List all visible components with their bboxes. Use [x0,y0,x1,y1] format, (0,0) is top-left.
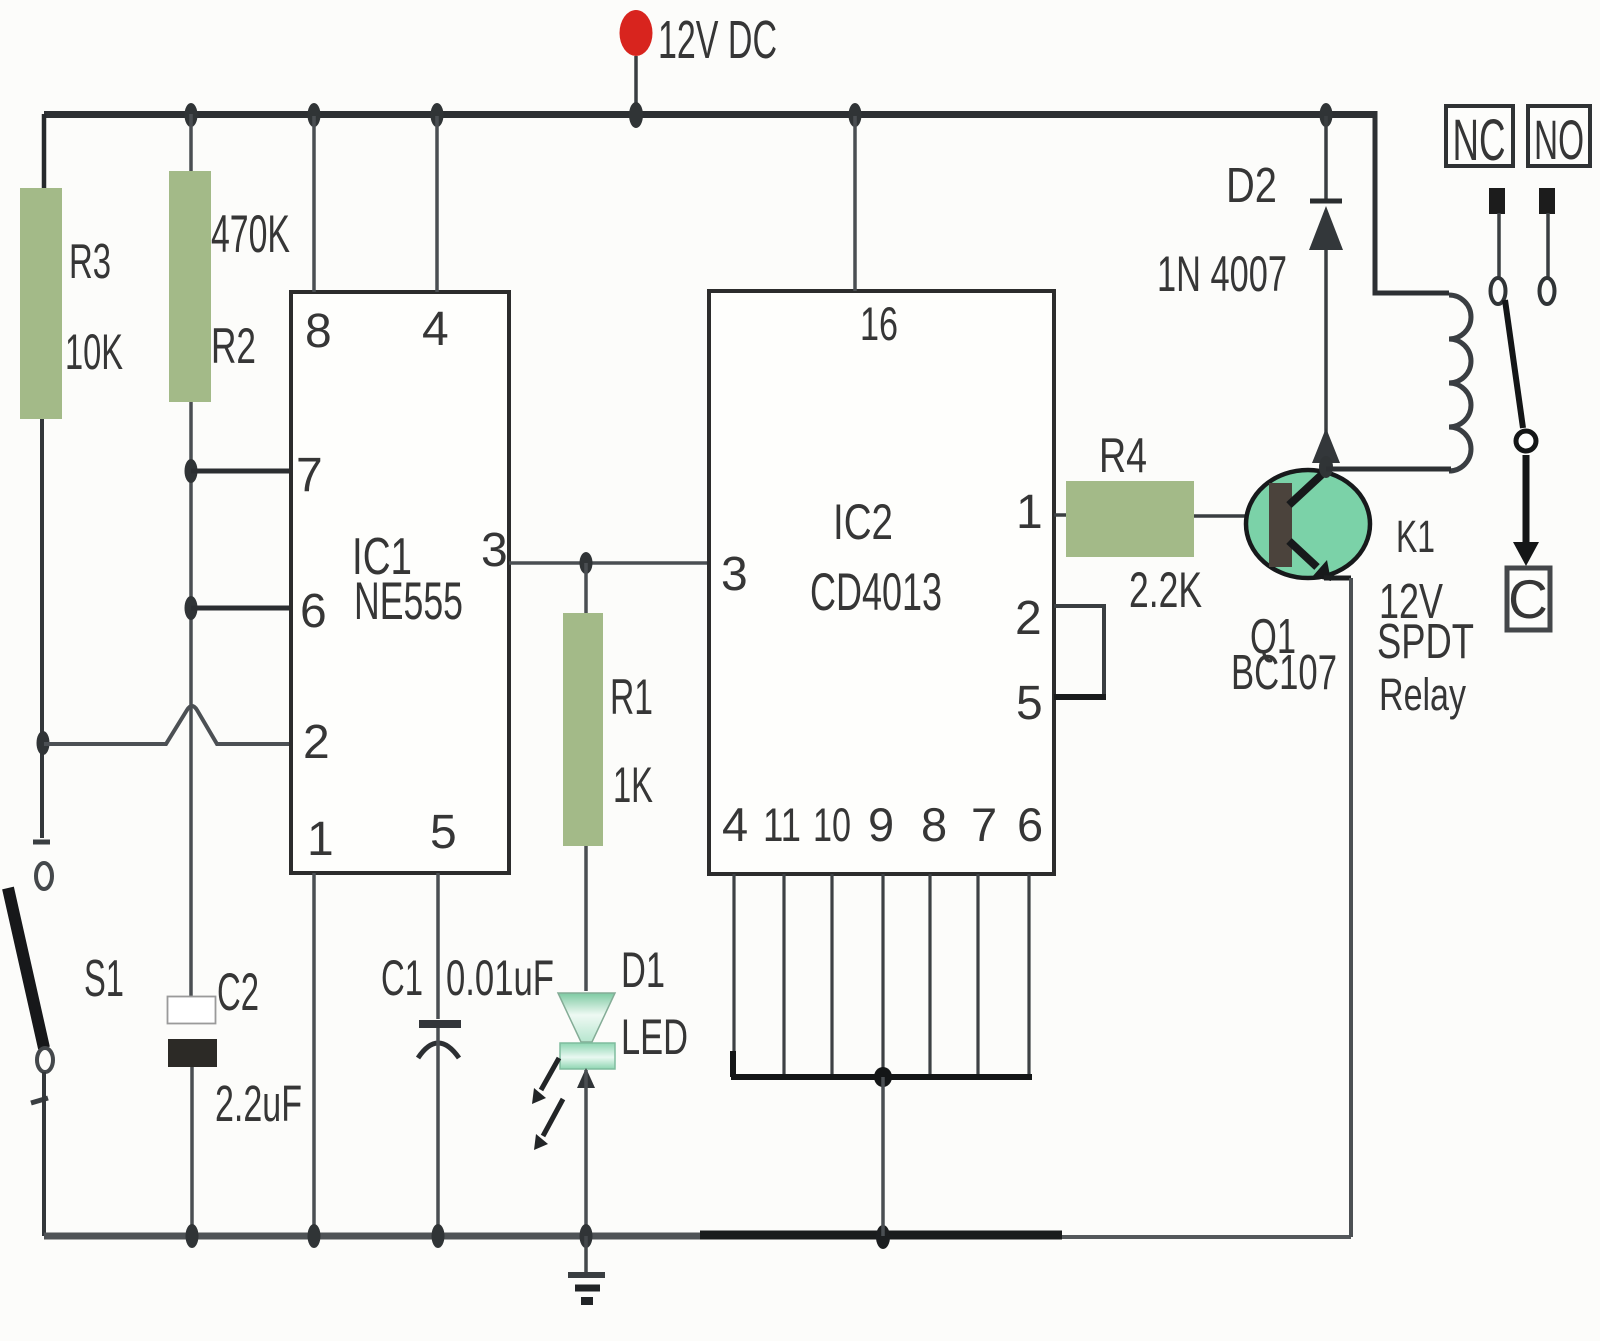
junction bus [874,1067,892,1087]
junction top rail at D2 [1320,103,1333,127]
svg-text:12V DC: 12V DC [658,10,777,70]
junction rail at C2 [186,1224,199,1248]
svg-text:1: 1 [307,813,334,866]
LED emission arrow 2 [534,1099,563,1150]
NC contact stem [1489,188,1506,304]
svg-text:16: 16 [860,297,898,350]
svg-text:1K: 1K [613,757,653,813]
wire pin 2 with hop over R2 [44,706,291,744]
svg-text:2.2uF: 2.2uF [215,1075,302,1132]
switch S1 [8,842,53,1236]
bottom ground rail black segment [700,1231,1062,1240]
junction rail at LED [580,1224,593,1248]
resistor R1 [563,613,603,846]
svg-text:D1: D1 [621,942,665,998]
svg-text:1: 1 [1016,486,1043,539]
resistor R2 [169,171,211,402]
wire left rail top lead [42,114,47,189]
wire IC1 pin 1 to ground rail [312,873,316,1236]
wire IC2 pin 1 to R4 [1054,513,1068,517]
diode D2 [1309,116,1343,466]
wire emitter down to rail [1349,578,1353,1237]
resistor R1 lead top [584,563,588,614]
svg-text:470K: 470K [211,205,290,264]
svg-text:IC2: IC2 [833,494,893,550]
svg-text:5: 5 [1016,677,1043,730]
wire pin 7 [191,469,291,474]
svg-text:10K: 10K [65,324,123,380]
resistor R3 [20,188,62,419]
wire R4 to Q1 base [1194,514,1272,518]
wire R3 bottom to switch [40,419,44,838]
svg-text:NC: NC [1453,108,1506,173]
svg-text:R4: R4 [1099,429,1147,483]
capacitor C2 [168,997,218,1237]
wire bus to ground rail [881,1077,885,1236]
svg-text:6: 6 [300,585,327,638]
NC terminal box [1446,106,1513,166]
svg-text:CD4013: CD4013 [810,563,942,622]
C terminal box [1507,568,1550,630]
svg-text:LED: LED [621,1009,688,1065]
svg-text:C1: C1 [381,950,423,1006]
svg-text:2: 2 [303,716,330,769]
svg-text:R2: R2 [211,318,256,374]
wire IC1 pin 4 [435,116,439,292]
relay coil K1 feed wires [1373,111,1378,291]
bottom ground rail left part [44,1233,1062,1240]
node pin2 row junction [37,731,50,755]
svg-text:0.01uF: 0.01uF [446,950,554,1006]
wire IC2 pin 7 down [976,874,979,1075]
junction rail at pin1 [308,1224,321,1248]
svg-text:8: 8 [921,798,947,851]
svg-text:4: 4 [722,798,748,851]
wire IC2 pin 10 down [830,874,833,1075]
junction collector node [1319,456,1333,478]
wire coil bottom to collector node [1326,467,1451,472]
ground [568,1236,605,1301]
NO terminal box [1528,106,1590,166]
svg-text:4: 4 [422,303,449,356]
wire IC2 pin 11 down [782,874,785,1075]
svg-text:Relay: Relay [1379,669,1466,720]
wire IC2 pin 4 down [732,874,735,1075]
IC2 CD4013 box [709,291,1054,874]
wire pin 3 IC1 to IC2 [509,561,709,565]
svg-text:C: C [1508,568,1548,630]
svg-text:R3: R3 [69,235,111,289]
op-amp IC1 NE555 box [291,292,509,873]
pole arrow [1513,455,1539,566]
wire IC1 pin 8 [312,116,316,292]
power node 12V DC [620,10,653,113]
top power rail wire [44,111,1377,118]
svg-text:K1: K1 [1396,511,1435,562]
wire IC2 pin 9 down [881,874,884,1075]
capacitor C1 [418,1024,461,1236]
resistor R2 top lead [189,114,193,172]
svg-text:NO: NO [1534,108,1584,171]
bottom ground rail thin right part [1062,1235,1351,1239]
resistor R4 [1066,481,1194,557]
relay coil K1 [1449,295,1471,471]
wire R2 bottom to C2 [189,402,193,997]
svg-text:7: 7 [296,449,323,502]
pole pivot ring [1516,431,1536,451]
transistor Q1 [1246,467,1370,581]
wire IC2 pin 16 [853,116,857,291]
junction R2 pin6 [185,596,198,620]
junction rail at C1 [432,1224,445,1248]
svg-text:10: 10 [813,798,851,851]
relay pole arm [1505,300,1523,428]
junction top rail at IC1 pin4 [431,103,444,127]
svg-text:SPDT: SPDT [1377,615,1474,669]
bus wire under IC2 [731,1051,1032,1077]
wire pin 6 [191,606,291,611]
svg-text:BC107: BC107 [1231,646,1337,700]
svg-text:5: 5 [430,806,457,859]
junction R2 pin7 [185,459,198,483]
svg-text:D2: D2 [1226,159,1277,213]
svg-text:7: 7 [971,798,997,851]
junction top rail at IC1 pin8 [308,103,321,127]
svg-text:8: 8 [305,305,332,358]
junction rail at IC2 bus [876,1225,890,1249]
wire R1 to LED [584,846,588,991]
wire IC1 pin 5 to C1 [436,873,440,1019]
svg-text:C2: C2 [217,963,259,1022]
LED D1 [558,993,615,1236]
svg-text:2: 2 [1015,592,1042,645]
junction top rail at 12V [629,102,643,128]
svg-text:S1: S1 [84,950,124,1008]
svg-text:2.2K: 2.2K [1129,562,1202,618]
svg-text:NE555: NE555 [354,572,463,631]
wire IC2 pin 8 down [928,874,931,1075]
svg-text:R1: R1 [610,669,653,725]
LED emission arrow 1 [532,1058,559,1104]
junction top rail at IC2 pin16 [849,103,862,127]
wire IC2 pin 6 down [1027,874,1030,1075]
svg-text:11: 11 [763,798,801,851]
svg-text:9: 9 [868,798,894,851]
junction top rail at R2 [185,103,198,127]
junction pin3 R1 [580,552,593,574]
svg-text:1N 4007: 1N 4007 [1157,246,1287,302]
wire IC2 pin 2 pin 5 stub [1054,606,1104,697]
svg-text:3: 3 [721,548,748,601]
svg-text:3: 3 [481,524,508,577]
svg-text:6: 6 [1017,798,1043,851]
NO contact stem [1539,188,1555,304]
